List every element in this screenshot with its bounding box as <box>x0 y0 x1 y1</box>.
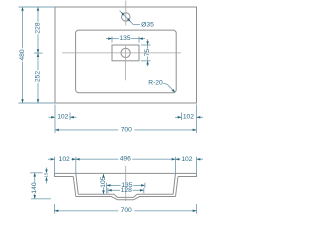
dimension 105 <box>102 173 105 194</box>
extension lines below top view <box>55 105 197 134</box>
dimension 496 <box>76 158 176 161</box>
faucet hole vertical centerline <box>125 1 127 26</box>
label 700 top-view <box>121 126 132 133</box>
svg-text:102: 102 <box>183 114 194 121</box>
label 140 <box>31 182 38 193</box>
svg-text:75: 75 <box>144 49 151 57</box>
dimension 135 section <box>107 183 145 194</box>
drain vertical centerline <box>125 46 127 80</box>
label 700 bottom <box>121 207 132 214</box>
svg-text:102: 102 <box>181 156 192 163</box>
label 15 rim <box>44 172 49 177</box>
R-20 leader line with arrow <box>163 83 175 92</box>
label 102 left top-view <box>57 114 68 121</box>
dimension 700 top-view <box>55 129 197 132</box>
label 480 <box>19 49 26 60</box>
O35 label <box>141 22 154 29</box>
label 228 <box>35 22 42 33</box>
basin outer rectangle (top view 700x480) <box>55 7 197 103</box>
dimension 480 vertical <box>21 7 24 103</box>
label 128 section <box>121 187 132 194</box>
label 252 <box>35 71 42 82</box>
dimension 135 top <box>106 37 145 43</box>
svg-text:R-20: R-20 <box>148 80 163 87</box>
dimension 700 bottom <box>55 204 197 214</box>
dimension 128 section <box>108 188 144 193</box>
dimension 15 rim thickness <box>45 168 48 184</box>
dimension 102 left section <box>48 158 76 161</box>
basin bowl inner rounded rectangle (R-20 corners) <box>76 30 177 93</box>
svg-text:135: 135 <box>119 35 130 42</box>
extension line mid (drain center) <box>34 52 43 54</box>
dimension 252 vertical <box>37 53 40 103</box>
label 102 right section <box>181 156 192 163</box>
extension line bottom-left corner <box>19 102 56 104</box>
dimension 102 left top-view <box>49 116 77 119</box>
svg-text:128: 128 <box>121 187 132 194</box>
dimension 102 right top-view <box>175 116 203 119</box>
svg-text:102: 102 <box>57 114 68 121</box>
R-20 label <box>148 80 163 87</box>
label 105 <box>100 176 107 187</box>
svg-text:252: 252 <box>35 71 42 82</box>
label 135 section <box>121 182 132 189</box>
drain hole circle <box>121 48 130 57</box>
basin cross-section profile <box>55 173 197 199</box>
label 102 left section <box>59 156 70 163</box>
svg-text:102: 102 <box>59 156 70 163</box>
label 496 <box>120 155 131 162</box>
svg-text:700: 700 <box>121 126 132 133</box>
drain recess rectangle 135x75 <box>112 45 139 61</box>
label 102 right top-view <box>183 114 194 121</box>
svg-text:480: 480 <box>19 49 26 60</box>
section vertical centerline <box>125 166 127 201</box>
extension lines above section <box>55 157 197 174</box>
O35 leader line with arrows <box>120 11 140 25</box>
label 135 top <box>119 35 130 42</box>
svg-text:228: 228 <box>35 22 42 33</box>
dimension 102 right section <box>176 158 204 161</box>
svg-text:105: 105 <box>100 176 107 187</box>
dimension 140 <box>30 173 51 199</box>
faucet hole circle O35 <box>122 13 130 21</box>
extension line top-left corner <box>19 6 56 8</box>
drain horizontal centerline <box>62 52 181 54</box>
svg-text:Ø35: Ø35 <box>141 22 154 29</box>
svg-text:140: 140 <box>31 182 38 193</box>
dimension 228 vertical <box>37 7 40 53</box>
dimension 75 right <box>141 39 151 66</box>
svg-text:15: 15 <box>44 172 49 177</box>
svg-text:496: 496 <box>120 155 131 162</box>
svg-text:700: 700 <box>121 207 132 214</box>
label 75 <box>144 49 151 57</box>
